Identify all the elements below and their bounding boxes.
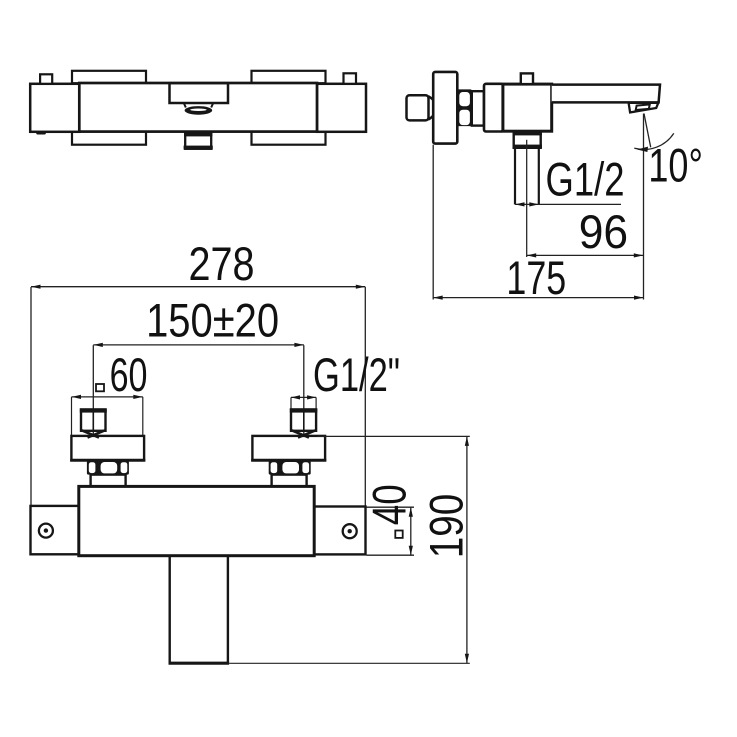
- label square60: [96, 384, 104, 391]
- svg-text:G1/2": G1/2": [313, 349, 400, 402]
- svg-text:60: 60: [110, 349, 148, 402]
- hex nut left: [87, 461, 129, 475]
- svg-text:278: 278: [189, 238, 255, 291]
- spout neck right line: [211, 103, 213, 108]
- top escutcheon plate left: [72, 71, 146, 83]
- 40 dim line: [410, 507, 412, 555]
- inlet stub left: [81, 409, 106, 430]
- 190 dim line: [466, 436, 468, 663]
- escutcheon left: [71, 436, 144, 460]
- aerator face: [636, 104, 650, 110]
- spout outlet (tilted): [629, 103, 659, 113]
- mixer body: [79, 486, 314, 555]
- valve stem: [472, 91, 484, 125]
- svg-text:40: 40: [364, 484, 417, 525]
- 190 top extension: [318, 435, 470, 437]
- spout neck left line: [184, 103, 186, 108]
- left handle top tab: [40, 74, 52, 84]
- hex nut right: [269, 461, 311, 475]
- bottom escutcheon plate right: [252, 131, 326, 144]
- 96 dim line: [527, 254, 644, 256]
- angle arc: [634, 133, 674, 149]
- wall lug right: [314, 507, 365, 555]
- knob dome: [428, 96, 436, 119]
- svg-text:G1/2: G1/2: [546, 154, 625, 207]
- 278 extension left: [30, 287, 32, 506]
- tailpiece right: [272, 475, 307, 487]
- bottom cartridge tab: [185, 133, 211, 149]
- 175 dim line: [433, 297, 643, 299]
- G1/2 stub extensions: [290, 397, 292, 409]
- 40 dim extensions: [367, 506, 415, 508]
- bottom escutcheon plate left: [72, 131, 146, 144]
- shower outlet block: [514, 131, 541, 147]
- main body block: [503, 84, 552, 131]
- 60 dim line: [72, 396, 143, 398]
- spout housing box: [170, 83, 229, 103]
- svg-text:190: 190: [420, 494, 473, 559]
- body back block: [484, 84, 503, 132]
- handle knob: [407, 95, 429, 120]
- down tube: [168, 557, 170, 663]
- spout: [552, 85, 660, 103]
- right handle: [317, 84, 366, 132]
- 60 extension left: [71, 397, 73, 436]
- aerator ring: [185, 106, 213, 115]
- hex nuts: [457, 89, 472, 126]
- svg-text:175: 175: [506, 252, 566, 305]
- outlet pipe right line: [538, 148, 540, 205]
- 278 extension right: [364, 287, 366, 506]
- inlet stub right: [291, 409, 316, 430]
- angle vertical leg / extension line: [643, 114, 645, 300]
- wall lug left: [31, 506, 79, 554]
- G1/2 dim line (side view): [515, 203, 621, 205]
- G1/2 inch dim line (stub): [291, 396, 316, 398]
- svg-text:96: 96: [579, 206, 628, 259]
- angle arc arrowhead: [637, 147, 648, 152]
- 150+-20 dim line: [93, 344, 304, 346]
- mixer body bar: [79, 83, 317, 132]
- 175 left extension line: [432, 145, 434, 300]
- svg-text:10°: 10°: [648, 139, 703, 192]
- left handle: [30, 84, 79, 132]
- right handle top tab: [344, 73, 357, 84]
- inlet centerline left: [92, 345, 94, 437]
- svg-text:150±20: 150±20: [146, 295, 279, 348]
- wall plate: [433, 72, 457, 144]
- 190 bottom extension: [229, 662, 470, 664]
- pipe centerline: [526, 140, 528, 257]
- top tab: [521, 73, 533, 84]
- angle tilted leg: [644, 114, 651, 148]
- escutcheon right: [252, 436, 325, 460]
- set screw dash under left handle: [36, 131, 46, 134]
- olive chamfer left: [81, 430, 99, 437]
- top escutcheon plate right: [252, 71, 326, 83]
- olive chamfer right: [291, 430, 309, 437]
- tailpiece left: [91, 475, 126, 487]
- 278 dim line: [31, 286, 365, 288]
- screw hole right: [343, 524, 357, 538]
- 60 extension right: [142, 397, 144, 436]
- inlet centerline right: [303, 345, 305, 437]
- screw hole left: [39, 524, 53, 538]
- outlet pipe left line: [514, 148, 516, 205]
